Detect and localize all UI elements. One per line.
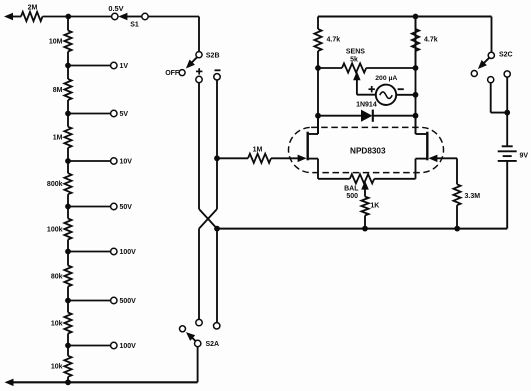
resistor 100k (chain) <box>64 219 71 240</box>
switch S2A pole <box>195 340 201 346</box>
wire gate Q2 to 3.3M <box>437 158 458 184</box>
label 5k <box>350 57 358 64</box>
wire diode cathode <box>373 115 416 117</box>
transistor Q1 drain stub <box>307 115 318 134</box>
switch S2B wiper arrow <box>186 57 197 68</box>
svg-text:100V: 100V <box>120 343 137 350</box>
svg-text:5V: 5V <box>120 111 129 118</box>
label 200 uA <box>375 75 397 82</box>
terminal 1V <box>111 62 117 68</box>
meter M1 200uA <box>376 85 396 105</box>
label 100k <box>47 226 63 233</box>
svg-text:NPD8303: NPD8303 <box>350 146 386 155</box>
svg-text:1V: 1V <box>120 63 129 70</box>
label S1 <box>130 22 139 29</box>
terminal S2C throw 1 <box>488 77 494 83</box>
svg-text:500V: 500V <box>120 298 137 305</box>
label 9V <box>520 153 529 160</box>
svg-text:0.5V: 0.5V <box>108 4 123 13</box>
label 1M <box>53 135 63 142</box>
label 80k <box>51 273 63 280</box>
switch S2C unused contact <box>471 71 477 77</box>
node battery top junction <box>504 110 510 116</box>
transistor Q1 source stub <box>307 159 318 179</box>
switch S1 pole contact <box>142 13 148 19</box>
label 8M <box>53 87 63 94</box>
svg-text:1M: 1M <box>53 135 63 142</box>
switch S2B pole <box>196 52 202 58</box>
wire bottom bus <box>217 161 507 229</box>
potentiometer BAL 500 <box>350 174 374 183</box>
label S2B <box>206 52 220 59</box>
resistor 8M (chain) <box>64 79 71 100</box>
wire tap 50V <box>68 206 111 208</box>
wire chain segment 5 <box>67 207 69 252</box>
label 50V <box>120 204 133 211</box>
resistor 4.7k left <box>314 29 321 51</box>
switch S1 contact 0.5V <box>112 13 118 19</box>
svg-text:4.7k: 4.7k <box>327 37 341 44</box>
wiper BAL arrow <box>361 181 369 197</box>
label S2C <box>499 51 513 58</box>
label 3.3M <box>465 193 481 200</box>
svg-text:500: 500 <box>346 193 358 200</box>
wire top bus to S2C <box>491 17 493 53</box>
wire BAL to Q2 source <box>374 178 415 180</box>
label 100V <box>120 343 137 350</box>
wire chain segment 3 <box>67 114 69 162</box>
wire tap 500V <box>68 300 111 302</box>
switch S2C wiper arrow <box>478 58 489 69</box>
resistor 10k (chain) <box>64 313 71 334</box>
svg-text:1M: 1M <box>253 146 263 153</box>
label 1M (gate) <box>253 146 263 153</box>
terminal 10V <box>111 158 117 164</box>
label 1N914 <box>356 102 377 109</box>
wire right lead to S2A <box>216 229 218 323</box>
wire 1K to bottom bus <box>364 215 366 228</box>
wire S2C throw1 down <box>491 83 508 113</box>
wiper SENS arrow <box>353 71 361 95</box>
svg-text:2M: 2M <box>28 5 38 12</box>
transistor Q2 drain stub <box>416 115 429 134</box>
svg-text:80k: 80k <box>51 273 63 280</box>
switch S1 wiper arrow <box>118 13 141 20</box>
terminal 50V <box>111 203 117 209</box>
transistor Q2 source stub <box>416 159 429 179</box>
wire S1 to S2B <box>148 17 199 52</box>
resistor 4.7k right <box>412 29 419 51</box>
svg-text:800k: 800k <box>47 181 63 188</box>
node chain tap 50V <box>65 204 71 210</box>
wire SENS right <box>366 67 415 69</box>
svg-text:3.3M: 3.3M <box>465 193 481 200</box>
wire SENS left <box>318 67 342 69</box>
node 3.3M / bottom bus <box>454 226 460 232</box>
node chain tap 1V <box>65 63 71 69</box>
svg-text:10k: 10k <box>51 320 63 327</box>
wire top-left bus <box>11 16 112 18</box>
node diode right <box>413 113 419 119</box>
wire crossover a <box>199 209 217 229</box>
wire right 4.7k leads <box>415 17 417 69</box>
node meter / right rail <box>413 92 419 98</box>
svg-text:S2B: S2B <box>206 52 220 59</box>
wire 1M to gate Q1 <box>271 157 299 159</box>
resistor 10M (chain) <box>64 31 71 52</box>
wire - lead down <box>216 80 218 209</box>
svg-text:10M: 10M <box>49 38 63 45</box>
svg-text:1N914: 1N914 <box>356 102 377 109</box>
arrow top-left lead <box>4 13 13 20</box>
svg-text:8M: 8M <box>53 87 63 94</box>
label 1K <box>370 202 379 209</box>
label 5V <box>120 111 129 118</box>
gate arrow Q2 <box>428 155 437 163</box>
wire tap 10V <box>68 160 111 162</box>
label 500V <box>120 298 137 305</box>
label 10V <box>120 158 133 165</box>
terminal - input <box>214 74 220 80</box>
wire left 4.7k leads <box>317 17 319 69</box>
wire left lead to S2A <box>198 229 200 320</box>
switch S2C pole <box>488 52 494 58</box>
node chain tap 100V <box>65 249 71 255</box>
wire left drain rail <box>317 68 319 134</box>
label meter + <box>369 86 375 92</box>
label NPD8303 <box>350 146 386 155</box>
wire tap 5V <box>68 113 111 115</box>
wire meter to right rail <box>396 94 415 96</box>
label 0.5V <box>108 4 123 13</box>
wire right drain rail <box>415 17 417 135</box>
svg-text:9V: 9V <box>520 153 529 160</box>
resistor 800k (chain) <box>64 173 71 194</box>
node chain tap 10V <box>65 158 71 164</box>
svg-text:SENS: SENS <box>346 49 365 56</box>
svg-text:1K: 1K <box>370 202 379 209</box>
node right 4.7k / SENS <box>413 65 419 71</box>
node diode left <box>315 113 321 119</box>
svg-text:50V: 50V <box>120 204 133 211</box>
resistor 1K <box>361 197 368 216</box>
transistor Q1 channel bar <box>307 132 309 161</box>
terminal S2A throw 2 <box>214 323 220 329</box>
label 500 <box>346 193 358 200</box>
gate arrow Q1 <box>298 155 307 163</box>
wire top bus right <box>318 16 492 18</box>
wire + lead down <box>198 83 200 209</box>
label 100V <box>120 249 137 256</box>
resistor 3.3M <box>453 184 460 205</box>
svg-text:10k: 10k <box>51 364 63 371</box>
diode D1 1N914 <box>361 110 373 122</box>
svg-text:S2A: S2A <box>206 341 220 348</box>
wire chain segment 6 <box>67 252 69 301</box>
terminal 5V <box>111 110 117 116</box>
wire diode anode <box>318 115 362 117</box>
label 1V <box>120 63 129 70</box>
svg-text:OFF: OFF <box>165 70 180 77</box>
svg-text:BAL: BAL <box>344 186 359 193</box>
svg-text:4.7k: 4.7k <box>424 37 438 44</box>
node crossover junction <box>214 226 220 232</box>
node left 4.7k / SENS <box>315 65 321 71</box>
wire tap 1V <box>68 65 111 67</box>
switch S2A wiper arrow <box>186 332 196 341</box>
label 2M <box>28 5 38 12</box>
wire S2C throw2 to battery <box>506 77 508 146</box>
wire chain segment 2 <box>67 66 69 114</box>
svg-text:10V: 10V <box>120 158 133 165</box>
switch S2B OFF contact <box>179 70 185 76</box>
FET pair dashed outline <box>289 127 444 172</box>
label 10M <box>49 38 63 45</box>
resistor 1M (chain) <box>64 127 71 148</box>
svg-text:S1: S1 <box>130 22 139 29</box>
node top bus / R 4.7k right <box>413 14 419 20</box>
node 1K / bottom bus <box>362 226 368 232</box>
label 4.7k left <box>327 37 341 44</box>
svg-text:100k: 100k <box>47 226 63 233</box>
resistor 10k (chain) <box>64 356 71 377</box>
terminal 100V <box>111 342 117 348</box>
wire chain segment 1 <box>67 17 69 66</box>
potentiometer SENS 5k <box>342 63 366 72</box>
wire tap 100V <box>68 345 111 347</box>
label 10k <box>51 364 63 371</box>
terminal S2C throw 2 <box>504 71 510 77</box>
wire 3.3M to bottom bus <box>456 205 458 228</box>
node chain tap 500V <box>65 298 71 304</box>
terminal S2A throw 1 <box>196 319 202 325</box>
node - lead to 1M <box>214 155 220 161</box>
transistor Q2 channel bar <box>426 132 428 161</box>
label BAL <box>344 186 359 193</box>
label + input <box>196 68 202 74</box>
wire wiper to meter <box>357 94 376 96</box>
wire sources to BAL <box>318 178 350 180</box>
wire chain segment 8 <box>67 346 69 383</box>
label 800k <box>47 181 63 188</box>
wire chain segment 7 <box>67 301 69 346</box>
terminal 500V <box>111 297 117 303</box>
label OFF <box>165 70 180 77</box>
node chain tap 100V <box>65 343 71 349</box>
battery BT1 9V <box>498 146 517 161</box>
svg-text:S2C: S2C <box>499 51 513 58</box>
wire tap 100V <box>68 251 111 253</box>
switch S2A unused contact <box>180 326 186 332</box>
terminal 100V <box>111 248 117 254</box>
label 10k <box>51 320 63 327</box>
wire chain segment 4 <box>67 161 69 207</box>
label SENS <box>346 49 365 56</box>
svg-text:5k: 5k <box>350 57 358 64</box>
label S2A <box>206 341 220 348</box>
arrow bottom-left lead <box>5 379 14 387</box>
terminal + input <box>196 76 202 82</box>
node chain-bottom junction <box>65 379 71 385</box>
resistor R 2M <box>21 12 43 21</box>
wire bottom-left bus <box>12 347 198 383</box>
label meter - <box>398 88 404 90</box>
svg-text:200 µA: 200 µA <box>375 75 397 82</box>
label - input <box>215 69 221 71</box>
label 4.7k right <box>424 37 438 44</box>
node chain tap 5V <box>65 111 71 117</box>
resistor 80k (chain) <box>64 266 71 287</box>
wire to 1M <box>217 157 248 159</box>
resistor 1M (gate) <box>248 154 271 163</box>
wire crossover b <box>199 209 217 229</box>
node chain-top junction <box>65 14 71 20</box>
svg-text:100V: 100V <box>120 249 137 256</box>
